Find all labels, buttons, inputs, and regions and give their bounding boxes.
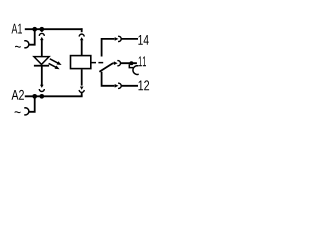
- test socket at 11: arc (open right): [133, 66, 139, 75]
- socket arc on 14 line (open left): [118, 36, 121, 41]
- plug-in connection above coil: socket arc (open down): [79, 34, 84, 37]
- mechanical link dashes from coil to contact: [91, 62, 103, 64]
- AC tilde marking at A2: [15, 111, 21, 113]
- stub from socket down to A2 bus corner: [81, 92, 83, 96]
- plug-in connection below coil: plug arrow (points down): [80, 87, 84, 90]
- wire lever to plug arrow: [113, 62, 114, 64]
- plug arrow on 14 line (points right): [115, 37, 119, 41]
- plug-in connection above A2 (LED branch): plug arrow (points down): [40, 85, 44, 88]
- wire A1 bus: [25, 28, 83, 30]
- relay coil K1: [71, 56, 91, 69]
- wire from socket to 12: [121, 85, 138, 87]
- contact NO branch: corner and wire to 14: [102, 39, 115, 57]
- socket arc at A2 (test socket, open left): [24, 108, 29, 115]
- wire plug to coil: [81, 40, 83, 55]
- wire A2 riser to test socket: [29, 96, 35, 112]
- plug arrow on 12 line (points right): [115, 84, 119, 88]
- plug-in connection above A2 (LED branch): socket arc (open up): [39, 89, 44, 92]
- LED emission arrow 2: [49, 63, 60, 69]
- AC tilde marking at A1: [15, 46, 21, 48]
- LED D1 triangle: [34, 57, 49, 65]
- contact lever (common moving contact): [99, 63, 113, 72]
- wire A1 bus corner down to coil plug: [81, 28, 83, 32]
- test socket at 11: stub: [129, 64, 133, 67]
- socket arc on 12 line (open left): [118, 83, 121, 88]
- wire A2 bus: [25, 95, 83, 97]
- terminal label 14: [138, 35, 148, 45]
- node junction dot on A2 bus (right): [39, 94, 44, 99]
- LED D1 cathode bar: [34, 65, 49, 67]
- wire A1 riser to test socket: [29, 29, 35, 45]
- plug-in connection below coil: socket arc (open up): [79, 90, 84, 93]
- LED emission arrow 1: [50, 59, 62, 65]
- wire from socket to 14: [121, 38, 138, 40]
- wire from socket to 11: [121, 62, 137, 64]
- plug-in connection below A1 right dot: socket arc (open down): [39, 33, 44, 36]
- plug-in connection below A1 right dot: plug arrow (points up): [40, 37, 44, 40]
- plug arrow on 11 line (points right): [114, 61, 118, 65]
- socket arc on 11 line (open left): [117, 61, 120, 66]
- node junction dot on A1 bus (left): [32, 27, 37, 32]
- wire from plug to LED: [41, 40, 43, 57]
- node junction dot at 11: [129, 61, 133, 65]
- plug-in connection above coil: plug arrow (points up): [80, 37, 84, 40]
- wire from LED down: [41, 67, 43, 86]
- socket arc at A1 (test socket, open left): [24, 41, 29, 48]
- plug-in connection below A1 right dot: stub: [41, 29, 43, 32]
- wire coil bottom down: [81, 69, 83, 85]
- terminal label A1: [12, 24, 23, 34]
- node junction dot on A2 bus (left): [32, 94, 37, 99]
- contact NC branch: vertical from lever tip: [102, 72, 115, 86]
- terminal label A2: [12, 90, 24, 100]
- terminal label 11: [139, 56, 146, 66]
- terminal label 12: [139, 80, 150, 90]
- node junction dot on A1 bus (right): [39, 27, 44, 32]
